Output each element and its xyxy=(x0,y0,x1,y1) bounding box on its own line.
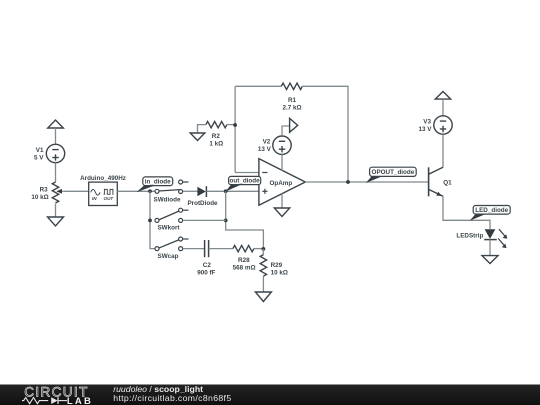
wire xyxy=(209,248,233,250)
wire xyxy=(55,128,57,145)
node dot R28/R29 xyxy=(262,247,266,251)
svg-text:R28: R28 xyxy=(238,257,250,264)
wire V2 top to flag xyxy=(282,126,290,136)
svg-text:10 kΩ: 10 kΩ xyxy=(31,194,48,201)
resistor R29 xyxy=(260,255,288,277)
svg-text:V3: V3 xyxy=(423,118,431,125)
wire op-amp output xyxy=(305,181,428,183)
node out_diode junction xyxy=(224,189,228,193)
svg-text:LEDStrip: LEDStrip xyxy=(456,233,483,240)
switch SWcap xyxy=(155,237,189,260)
wire V2 to op-amp xyxy=(281,154,283,170)
feedback wire left vertical xyxy=(234,86,236,172)
svg-text:OpAmp: OpAmp xyxy=(270,180,293,187)
voltage source V1 xyxy=(34,144,65,162)
wire xyxy=(117,190,157,192)
switch SWkort xyxy=(155,208,189,231)
wire xyxy=(183,248,204,250)
footer bar xyxy=(0,384,540,405)
wire top feedback left xyxy=(235,85,281,87)
wire xyxy=(55,204,57,217)
power flag V3 xyxy=(435,92,450,100)
svg-text:R1: R1 xyxy=(288,97,297,104)
ground xyxy=(48,217,64,226)
svg-text:13 V: 13 V xyxy=(419,126,433,133)
wire xyxy=(254,248,264,250)
svg-text:SWdiode: SWdiode xyxy=(154,196,181,203)
svg-text:V2: V2 xyxy=(263,139,271,146)
resistor R2 xyxy=(198,121,236,147)
wire xyxy=(262,249,264,255)
svg-text:LED_diode: LED_diode xyxy=(475,207,508,214)
svg-text:2.7 kΩ: 2.7 kΩ xyxy=(282,105,301,112)
wire xyxy=(64,190,89,192)
svg-text:R2: R2 xyxy=(212,133,221,140)
wire xyxy=(206,190,259,192)
svg-text:http://circuitlab.com/c8n68f5: http://circuitlab.com/c8n68f5 xyxy=(113,393,231,403)
wire xyxy=(442,99,444,116)
svg-text:5 V: 5 V xyxy=(34,155,44,162)
net flag in_diode xyxy=(136,177,172,192)
svg-text:SWkort: SWkort xyxy=(157,225,180,232)
power flag top-left xyxy=(48,120,64,128)
switch SWdiode xyxy=(154,180,189,203)
svg-text:1 kΩ: 1 kΩ xyxy=(209,141,223,148)
wire op-amp to ground xyxy=(281,194,283,209)
resistor R1 xyxy=(281,83,302,111)
node dot bus mid xyxy=(148,219,152,223)
resistor R28 xyxy=(233,245,256,271)
wire xyxy=(183,190,198,192)
svg-text:Arduino_490Hz: Arduino_490Hz xyxy=(80,175,126,182)
svg-text:OUT: OUT xyxy=(104,196,115,201)
svg-text:V1: V1 xyxy=(36,147,44,154)
ground xyxy=(274,208,289,217)
wire minus input xyxy=(235,172,259,174)
wire xyxy=(183,219,226,221)
svg-text:C2: C2 xyxy=(203,262,212,269)
ground xyxy=(190,133,205,141)
op-amp OpAmp xyxy=(259,159,305,206)
svg-text:R3: R3 xyxy=(40,186,49,193)
wire emitter xyxy=(443,196,490,229)
svg-text:Q1: Q1 xyxy=(443,180,452,187)
node dot SWkort row xyxy=(224,219,228,223)
svg-text:13 V: 13 V xyxy=(258,146,272,153)
resistor R3 (potentiometer) xyxy=(31,182,63,203)
wire xyxy=(55,163,57,182)
node dot R2/feedback xyxy=(233,123,237,127)
LED LEDStrip xyxy=(456,229,507,248)
wire xyxy=(442,134,444,167)
node dot feedback/output xyxy=(346,180,350,184)
net flag LED_diode xyxy=(470,206,511,221)
voltage source V3 xyxy=(419,116,453,134)
wire xyxy=(489,240,491,256)
svg-text:SWcap: SWcap xyxy=(158,253,179,260)
svg-text:10 kΩ: 10 kΩ xyxy=(271,270,288,277)
svg-text:IN: IN xyxy=(92,196,97,201)
node dot bus top xyxy=(148,189,152,193)
ground xyxy=(482,256,498,264)
wire bus vertical xyxy=(150,191,155,248)
wire top feedback right xyxy=(302,86,348,182)
svg-text:568 mΩ: 568 mΩ xyxy=(233,264,256,271)
svg-text:OPOUT_diode: OPOUT_diode xyxy=(372,169,415,176)
net flag out_diode xyxy=(225,176,260,191)
Arduino_490Hz source block xyxy=(80,175,126,206)
wire xyxy=(262,276,264,292)
svg-text:ProtDiode: ProtDiode xyxy=(187,200,218,207)
svg-text:900 fF: 900 fF xyxy=(197,270,215,277)
power flag V2 xyxy=(290,118,298,132)
diode ProtDiode xyxy=(187,186,218,207)
wire down from junction xyxy=(226,191,264,249)
svg-text:R29: R29 xyxy=(271,262,283,269)
svg-text:LAB: LAB xyxy=(67,396,93,405)
voltage source V2 xyxy=(258,136,291,154)
ground xyxy=(255,292,271,302)
capacitor C2 xyxy=(197,240,215,277)
net flag OPOUT_diode xyxy=(366,167,417,183)
transistor Q1 xyxy=(429,167,452,196)
svg-text:in_diode: in_diode xyxy=(145,178,171,185)
svg-text:out_diode: out_diode xyxy=(230,178,261,185)
